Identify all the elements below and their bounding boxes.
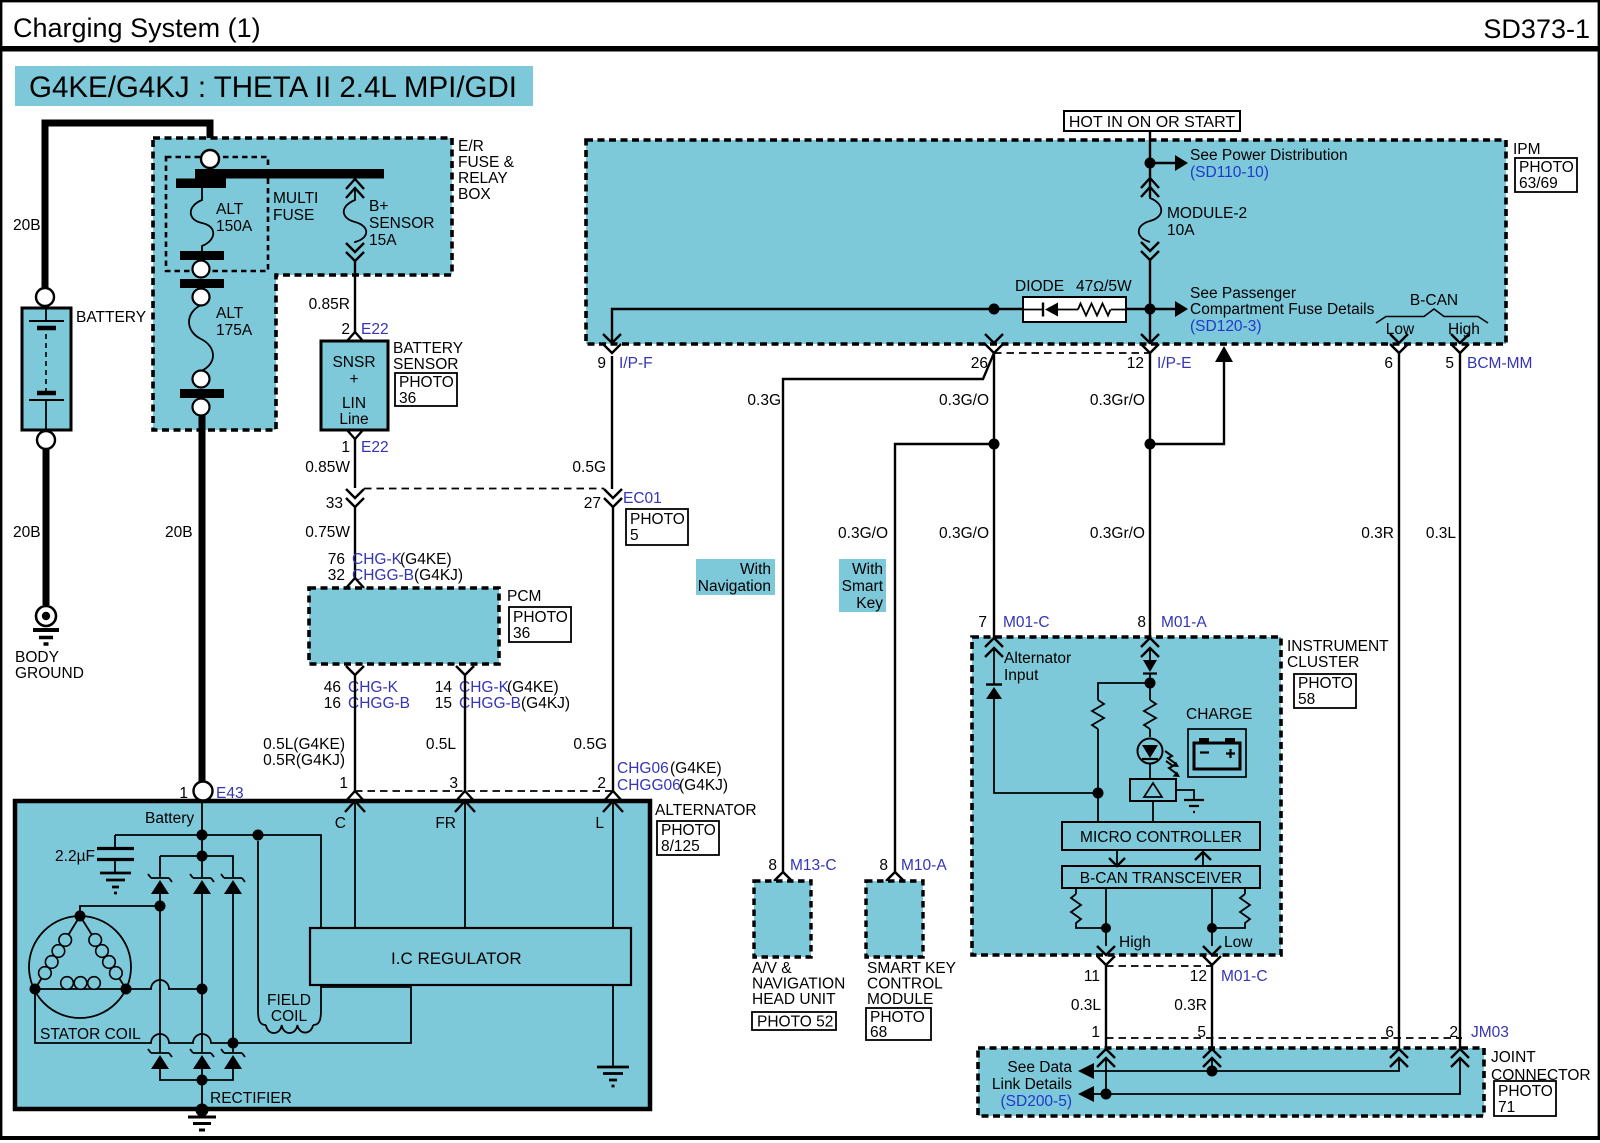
- svg-text:INSTRUMENT: INSTRUMENT: [1287, 638, 1389, 655]
- svg-text:I/P-E: I/P-E: [1157, 355, 1191, 372]
- wire stator left to field bus (hops): [35, 987, 411, 1043]
- svg-text:M01-C: M01-C: [1003, 614, 1050, 631]
- photo box 36: [395, 373, 457, 407]
- svg-text:0.5G: 0.5G: [573, 736, 607, 753]
- svg-text:PCM: PCM: [507, 588, 541, 605]
- instrument cluster dashed box: [972, 637, 1281, 955]
- wire 0.3G branch to navigation: [783, 353, 994, 872]
- svg-text:2: 2: [597, 775, 606, 792]
- svg-text:ALTERNATOR: ALTERNATOR: [655, 802, 757, 819]
- svg-text:6: 6: [1384, 355, 1393, 372]
- wire rectifier top bus y856: [160, 856, 233, 877]
- title separator rule: [0, 46, 1600, 52]
- svg-text:0.5L: 0.5L: [426, 736, 457, 753]
- svg-text:SD373-1: SD373-1: [1483, 14, 1590, 44]
- svg-text:E22: E22: [361, 321, 389, 338]
- svg-text:CHG06: CHG06: [617, 760, 669, 777]
- fuse MODULE-2 10A: [1139, 178, 1247, 260]
- terminal bar: [180, 279, 224, 288]
- svg-text:Navigation: Navigation: [698, 578, 771, 595]
- terminal circle: [193, 371, 210, 388]
- svg-text:36: 36: [513, 625, 530, 642]
- svg-text:JM03: JM03: [1471, 1024, 1509, 1041]
- wire 0.3R to JM03: [1211, 965, 1213, 1049]
- wire 20B battery top (thick): [45, 123, 210, 291]
- node pin26 tap: [989, 304, 1000, 315]
- svg-text:M13-C: M13-C: [790, 857, 837, 874]
- PCM bottom pin chevrons: [346, 666, 474, 675]
- node bus2 pin1: [1101, 1089, 1112, 1100]
- fuse B+ SENSOR 15A: [344, 179, 435, 261]
- wire 0.5L PCM pin14 to alternator FR: [464, 675, 466, 791]
- node ground on box edge: [196, 1104, 209, 1117]
- svg-text:With: With: [740, 561, 771, 578]
- svg-text:CHGG06: CHGG06: [617, 777, 681, 794]
- junction terminal circle: [201, 150, 219, 168]
- arrow see passenger: [1150, 308, 1175, 310]
- svg-text:SENSOR: SENSOR: [369, 215, 434, 232]
- wire 0.85W: [354, 439, 356, 488]
- dashed link pin26-pin12: [994, 352, 1150, 354]
- MICRO CONTROLLER box: [1062, 822, 1260, 850]
- wire 20B battery to body ground (thick): [43, 449, 50, 605]
- svg-text:Key: Key: [856, 595, 883, 612]
- battery: [22, 308, 71, 430]
- svg-text:2.2µF: 2.2µF: [55, 848, 95, 865]
- ground (rectifier): [188, 1117, 216, 1130]
- svg-text:A/V &: A/V &: [752, 960, 792, 977]
- svg-text:0.3G: 0.3G: [747, 392, 781, 409]
- svg-text:MODULE: MODULE: [867, 991, 933, 1008]
- node stator top / col1: [155, 901, 166, 912]
- svg-text:ALT: ALT: [216, 201, 244, 218]
- svg-text:8: 8: [1137, 614, 1146, 631]
- With Navigation badge: [696, 559, 775, 595]
- svg-text:(G4KE): (G4KE): [400, 551, 452, 568]
- arrowhead see data link 2: [1078, 1086, 1094, 1102]
- wire 0.3L column pin5: [1459, 353, 1461, 1049]
- svg-text:DIODE: DIODE: [1015, 278, 1064, 295]
- node diode line right: [1145, 304, 1156, 315]
- svg-text:10A: 10A: [1167, 222, 1195, 239]
- svg-text:With: With: [852, 561, 883, 578]
- svg-text:MICRO CONTROLLER: MICRO CONTROLLER: [1080, 829, 1242, 846]
- wire battery bus y835: [115, 835, 321, 928]
- alternator connector dashed link: [355, 790, 613, 792]
- photo box 52: [752, 1012, 836, 1031]
- rectifier diode top right: [221, 874, 245, 894]
- svg-text:0.3Gr/O: 0.3Gr/O: [1090, 392, 1145, 409]
- svg-text:175A: 175A: [216, 322, 253, 339]
- svg-text:CHARGE: CHARGE: [1186, 706, 1252, 723]
- svg-text:CONTROL: CONTROL: [867, 976, 943, 993]
- IPM dashed box: [586, 140, 1506, 344]
- svg-text:27: 27: [584, 495, 601, 512]
- svg-text:LIN: LIN: [342, 395, 366, 412]
- svg-text:(SD120-3): (SD120-3): [1190, 318, 1262, 335]
- svg-text:CLUSTER: CLUSTER: [1287, 654, 1359, 671]
- photo box 36 (PCM): [509, 607, 571, 642]
- svg-text:0.85R: 0.85R: [309, 296, 350, 313]
- photo box 8/125: [657, 821, 719, 855]
- MULTI FUSE dashed box: [166, 157, 268, 271]
- svg-text:Line: Line: [339, 411, 368, 428]
- svg-text:0.5G: 0.5G: [572, 459, 606, 476]
- ground (L terminal): [597, 1067, 629, 1086]
- arrow see power distribution: [1150, 162, 1175, 164]
- svg-text:CHGG-B: CHGG-B: [348, 695, 410, 712]
- PCM top pin chevron: [346, 578, 364, 588]
- wire L segment above regulator: [612, 801, 614, 928]
- svg-text:See Passenger: See Passenger: [1190, 285, 1296, 302]
- rectifier diode bottom left: [148, 1049, 172, 1069]
- engine header band G4KE/G4KJ: [15, 66, 533, 106]
- battery icon: [1188, 729, 1246, 777]
- svg-text:32: 32: [328, 567, 345, 584]
- node pin8/R1: [1145, 678, 1156, 689]
- terminal bar: [180, 251, 224, 260]
- svg-text:SNSR: SNSR: [332, 354, 375, 371]
- svg-text:0.5L(G4KE): 0.5L(G4KE): [263, 736, 345, 753]
- svg-text:0.3R: 0.3R: [1361, 525, 1394, 542]
- svg-text:BODY: BODY: [15, 649, 59, 666]
- photo box 58: [1294, 674, 1356, 708]
- svg-text:MULTI: MULTI: [273, 190, 318, 207]
- svg-text:Smart: Smart: [842, 578, 884, 595]
- rectifier bottom bus: [160, 1069, 233, 1110]
- alternator box: [15, 801, 650, 1109]
- svg-text:20B: 20B: [165, 524, 193, 541]
- svg-text:PHOTO: PHOTO: [661, 822, 716, 839]
- svg-text:Low: Low: [1224, 934, 1253, 951]
- wire 0.3Gr/O M01-A column: [1149, 353, 1151, 637]
- wire phase columns: [160, 894, 233, 1052]
- wire I/P-F horizontal: [612, 309, 1150, 344]
- svg-text:B-CAN: B-CAN: [1410, 292, 1458, 309]
- svg-text:E22: E22: [361, 439, 389, 456]
- svg-text:20B: 20B: [13, 524, 41, 541]
- IPM pin 6: [1390, 334, 1408, 353]
- svg-text:B+: B+: [369, 198, 388, 215]
- resistor high: [1071, 888, 1106, 928]
- svg-text:9: 9: [597, 355, 606, 372]
- svg-text:11: 11: [1084, 968, 1100, 985]
- wire L segment to ground: [612, 985, 614, 1066]
- wire 0.3G/O M01-C column: [993, 353, 995, 637]
- svg-text:SENSOR: SENSOR: [393, 356, 458, 373]
- svg-text:PHOTO: PHOTO: [513, 609, 568, 626]
- With Smart Key badge: [839, 559, 886, 612]
- connector pin 1 E22: [347, 430, 363, 439]
- svg-text:JOINT: JOINT: [1491, 1049, 1536, 1066]
- svg-text:ALT: ALT: [216, 305, 244, 322]
- svg-text:8: 8: [768, 857, 777, 874]
- svg-text:(G4KE): (G4KE): [670, 760, 722, 777]
- svg-text:(G4KJ): (G4KJ): [679, 777, 728, 794]
- svg-text:0.3R: 0.3R: [1174, 997, 1207, 1014]
- svg-text:I.C REGULATOR: I.C REGULATOR: [391, 949, 522, 968]
- wire feedback arrow to IPM: [1150, 362, 1224, 444]
- svg-text:FUSE &: FUSE &: [458, 154, 515, 171]
- wire C to regulator: [354, 801, 356, 928]
- svg-text:0.3G/O: 0.3G/O: [939, 525, 989, 542]
- data link bus 2: [1094, 1058, 1460, 1094]
- rectifier diode top mid: [190, 874, 214, 894]
- svg-text:Link Details: Link Details: [992, 1076, 1072, 1093]
- dashed link pins 11-12: [1106, 965, 1212, 967]
- svg-text:46: 46: [324, 679, 341, 696]
- ground (driver): [1176, 790, 1204, 812]
- arrowhead up into IPM: [1215, 346, 1233, 362]
- node main bus: [197, 851, 208, 862]
- svg-text:EC01: EC01: [623, 490, 662, 507]
- svg-text:0.3L: 0.3L: [1426, 525, 1457, 542]
- IPM pin 26: [985, 334, 1003, 353]
- svg-text:BATTERY: BATTERY: [76, 309, 146, 326]
- node low: [1207, 923, 1217, 933]
- wire 0.85R: [354, 261, 356, 332]
- svg-text:PHOTO: PHOTO: [1298, 675, 1353, 692]
- B-CAN brace: [1376, 292, 1488, 338]
- terminal circle: [193, 289, 210, 306]
- svg-text:B-CAN TRANSCEIVER: B-CAN TRANSCEIVER: [1080, 870, 1243, 887]
- svg-text:(SD200-5): (SD200-5): [1001, 1093, 1073, 1110]
- svg-text:1: 1: [1091, 1024, 1100, 1041]
- IPM pin 9 I/P-F: [603, 334, 621, 353]
- pin 7 chevrons: [985, 638, 1003, 657]
- svg-text:See Power Distribution: See Power Distribution: [1190, 147, 1348, 164]
- svg-text:COIL: COIL: [271, 1008, 308, 1025]
- svg-text:Input: Input: [1004, 667, 1039, 684]
- svg-text:PHOTO: PHOTO: [1498, 1083, 1553, 1100]
- svg-text:26: 26: [971, 355, 988, 372]
- svg-text:BOX: BOX: [458, 186, 491, 203]
- wire main column x202: [201, 800, 203, 877]
- svg-text:(G4KE): (G4KE): [507, 679, 559, 696]
- svg-text:1: 1: [341, 439, 350, 456]
- svg-text:M01-A: M01-A: [1161, 614, 1207, 631]
- svg-text:0.5R(G4KJ): 0.5R(G4KJ): [263, 752, 345, 769]
- svg-text:47Ω/5W: 47Ω/5W: [1076, 278, 1132, 295]
- wire pin8 down: [1149, 648, 1151, 737]
- wire stator top to col1: [80, 906, 160, 916]
- resistor R2: [1144, 700, 1156, 729]
- dashed link JM03 pins: [1106, 1037, 1462, 1039]
- diode resistor box 47ohm/5W: [1015, 278, 1132, 322]
- fuse ALT 175A: [189, 305, 253, 371]
- A/V & NAVIGATION HEAD UNIT box: [754, 881, 811, 957]
- svg-text:0.3L: 0.3L: [1071, 997, 1102, 1014]
- svg-text:BATTERY: BATTERY: [393, 340, 463, 357]
- node power distribution: [1145, 158, 1156, 169]
- svg-text:Charging System (1): Charging System (1): [13, 13, 261, 43]
- svg-text:8/125: 8/125: [661, 838, 700, 855]
- node field coil left: [253, 830, 264, 841]
- rectifier diode top left: [148, 874, 172, 894]
- svg-text:E/R: E/R: [458, 138, 484, 155]
- pin 8 chevrons: [1141, 638, 1159, 657]
- svg-text:(SD110-10): (SD110-10): [1190, 164, 1269, 181]
- svg-text:STATOR COIL: STATOR COIL: [40, 1026, 141, 1043]
- svg-text:E43: E43: [216, 785, 244, 802]
- svg-text:PHOTO: PHOTO: [630, 511, 685, 528]
- pin 12 chevrons: [1203, 946, 1221, 965]
- svg-text:HEAD UNIT: HEAD UNIT: [752, 991, 836, 1008]
- I.C REGULATOR box: [310, 928, 631, 985]
- node stator right / col2: [197, 984, 208, 995]
- svg-text:150A: 150A: [216, 218, 253, 235]
- svg-text:G4KE/G4KJ : THETA II 2.4L MPI/: G4KE/G4KJ : THETA II 2.4L MPI/GDI: [29, 71, 517, 104]
- svg-text:1: 1: [339, 775, 348, 792]
- svg-text:8: 8: [879, 857, 888, 874]
- svg-text:M01-C: M01-C: [1221, 968, 1268, 985]
- svg-text:0.3Gr/O: 0.3Gr/O: [1090, 525, 1145, 542]
- resistor R1: [1092, 683, 1150, 793]
- data link bus 1: [1094, 1058, 1399, 1071]
- PCM box: [309, 588, 499, 664]
- body ground: [33, 606, 59, 644]
- diode (alternator input): [986, 685, 1002, 700]
- svg-text:(G4KJ): (G4KJ): [521, 695, 570, 712]
- svg-text:BCM-MM: BCM-MM: [1467, 355, 1532, 372]
- svg-text:See Data: See Data: [1007, 1059, 1072, 1076]
- wire 0.3L to JM03: [1105, 965, 1107, 1049]
- bus bar: [195, 169, 384, 179]
- wire pin7 down: [994, 648, 1098, 793]
- svg-text:I/P-F: I/P-F: [619, 355, 653, 372]
- wire module-2 down: [1149, 258, 1151, 344]
- svg-text:M10-A: M10-A: [901, 857, 947, 874]
- svg-text:0.3G/O: 0.3G/O: [838, 525, 888, 542]
- svg-text:GROUND: GROUND: [15, 665, 84, 682]
- wire 0.5L/0.5R PCM pin46 to alternator C: [354, 675, 356, 791]
- svg-text:5: 5: [630, 527, 639, 544]
- IPM pin 5 BCM-MM: [1451, 334, 1469, 353]
- svg-text:CHG-K: CHG-K: [459, 679, 510, 696]
- svg-text:PHOTO: PHOTO: [399, 374, 454, 391]
- wire LED to driver: [1149, 763, 1151, 779]
- LED charge indicator: [1138, 739, 1181, 778]
- svg-text:L: L: [595, 815, 604, 832]
- node R1 bottom: [1093, 788, 1104, 799]
- connector 27 EC01 chevrons: [604, 489, 622, 507]
- wire 0.5G EC01 to alternator L: [612, 507, 614, 791]
- node rectifier bottom: [197, 1075, 208, 1086]
- wire 0.3R column pin6: [1398, 353, 1400, 1049]
- terminal circle: [193, 261, 210, 278]
- capacitor 2.2uF: [55, 835, 134, 893]
- wire 0.75W: [354, 507, 356, 578]
- photo box 63/69: [1515, 158, 1577, 192]
- photo box 68: [866, 1008, 931, 1041]
- svg-text:12: 12: [1127, 355, 1144, 372]
- svg-text:CHGG-B: CHGG-B: [459, 695, 521, 712]
- wire low: [1211, 888, 1213, 946]
- wire 0.5G IPM pin9 to EC01: [611, 356, 613, 489]
- wire smart key branch: [895, 444, 994, 872]
- node smart key tap: [989, 439, 1000, 450]
- svg-text:2: 2: [341, 321, 350, 338]
- svg-text:58: 58: [1298, 691, 1315, 708]
- battery sensor SNSR box: [321, 341, 388, 430]
- svg-text:High: High: [1119, 934, 1151, 951]
- svg-text:Compartment Fuse Details: Compartment Fuse Details: [1190, 301, 1375, 318]
- driver box with triangle: [1130, 779, 1176, 801]
- rectifier diode bottom mid: [190, 1049, 214, 1069]
- photo box 5: [626, 509, 688, 545]
- svg-text:33: 33: [326, 495, 343, 512]
- svg-text:0.75W: 0.75W: [305, 524, 350, 541]
- svg-text:C: C: [335, 815, 346, 832]
- svg-text:63/69: 63/69: [1519, 175, 1558, 192]
- rectifier diode bottom right: [221, 1049, 245, 1069]
- E/R fuse & relay box (L-shape, dashed): [153, 138, 452, 430]
- svg-text:12: 12: [1190, 968, 1207, 985]
- svg-text:SMART KEY: SMART KEY: [867, 960, 956, 977]
- arrow bcan to micro: [1202, 852, 1204, 866]
- node main/cap: [197, 830, 208, 841]
- svg-text:PHOTO 52: PHOTO 52: [757, 1014, 833, 1031]
- node field-coil bus / col3: [228, 1038, 239, 1049]
- svg-text:7: 7: [978, 614, 987, 631]
- fuse ALT 150A: [191, 188, 253, 251]
- bottom rule: [0, 1136, 1600, 1140]
- svg-text:RELAY: RELAY: [458, 170, 508, 187]
- svg-text:20B: 20B: [13, 217, 41, 234]
- diode (charge, down): [1143, 660, 1157, 674]
- pin 11 chevrons: [1097, 946, 1115, 965]
- node feedback tap: [1145, 439, 1156, 450]
- svg-text:HOT IN ON OR START: HOT IN ON OR START: [1069, 114, 1235, 131]
- svg-text:71: 71: [1498, 1099, 1515, 1116]
- field coil: [258, 841, 321, 1033]
- svg-text:1: 1: [179, 785, 188, 802]
- svg-text:5: 5: [1445, 355, 1454, 372]
- svg-text:CHGG-B: CHGG-B: [352, 567, 414, 584]
- arrow micro to bcan: [1116, 850, 1118, 864]
- svg-text:36: 36: [399, 390, 416, 407]
- terminal circle: [193, 399, 210, 416]
- svg-text:FIELD: FIELD: [267, 992, 311, 1009]
- svg-text:15: 15: [435, 695, 452, 712]
- svg-text:16: 16: [324, 695, 341, 712]
- svg-text:+: +: [349, 371, 358, 388]
- svg-text:76: 76: [328, 551, 345, 568]
- svg-text:NAVIGATION: NAVIGATION: [752, 976, 845, 993]
- svg-text:3: 3: [449, 775, 458, 792]
- svg-text:0.85W: 0.85W: [305, 459, 350, 476]
- joint connector EC01 dashed link: [364, 488, 604, 490]
- terminal bar: [180, 389, 224, 398]
- connector 33 chevrons: [346, 489, 364, 507]
- svg-text:Alternator: Alternator: [1004, 650, 1071, 667]
- svg-text:PHOTO: PHOTO: [1519, 159, 1574, 176]
- svg-text:CHG-K: CHG-K: [352, 551, 403, 568]
- svg-text:FR: FR: [435, 815, 456, 832]
- wire 20B from ALT175A to alternator (thick): [199, 415, 206, 782]
- wire HOT IN feed: [1149, 130, 1151, 197]
- svg-text:(G4KJ): (G4KJ): [414, 567, 463, 584]
- svg-text:68: 68: [870, 1024, 887, 1041]
- svg-text:Battery: Battery: [145, 810, 194, 827]
- svg-text:FUSE: FUSE: [273, 207, 314, 224]
- wires into micro controller: [1098, 793, 1153, 822]
- svg-text:RECTIFIER: RECTIFIER: [210, 1090, 292, 1107]
- HOT IN ON OR START box: [1064, 111, 1240, 131]
- B-CAN TRANSCEIVER box: [1062, 866, 1260, 888]
- stator coil: [29, 911, 132, 1019]
- photo box 71: [1494, 1081, 1556, 1116]
